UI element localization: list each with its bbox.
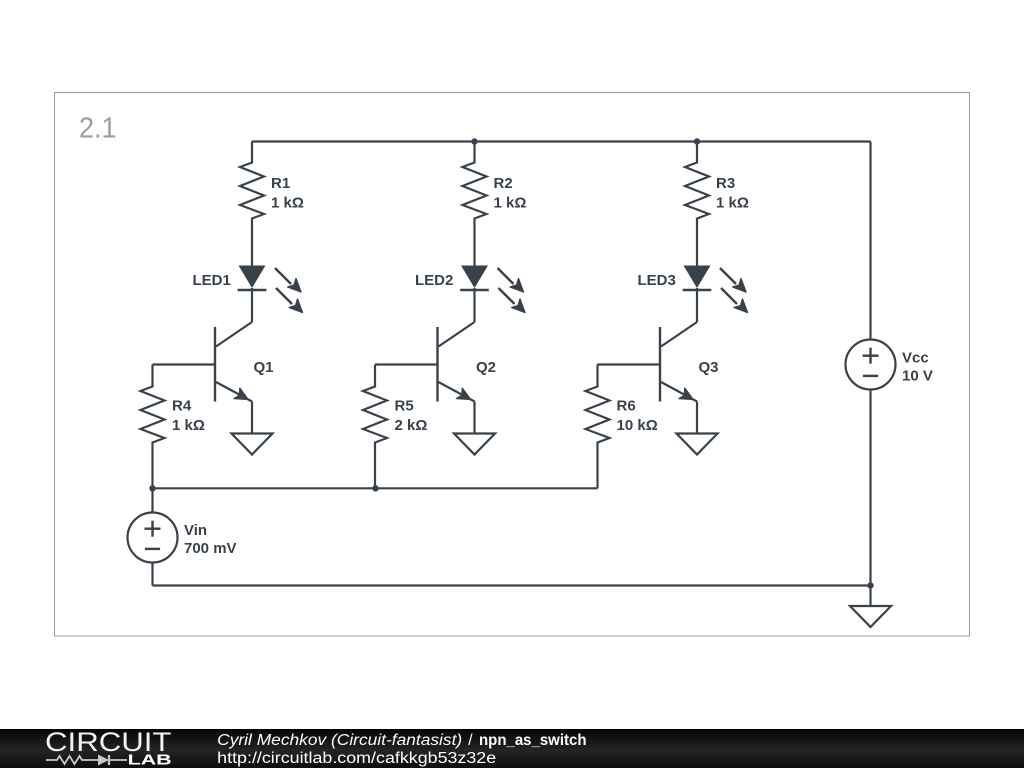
- svg-text:Vcc: Vcc: [902, 350, 929, 367]
- svg-text:Vin: Vin: [184, 522, 207, 539]
- svg-text:LAB: LAB: [128, 752, 172, 768]
- svg-text:10 kΩ: 10 kΩ: [617, 417, 658, 434]
- svg-text:R1: R1: [271, 175, 290, 192]
- svg-text:Q1: Q1: [254, 359, 274, 376]
- svg-text:/: /: [468, 732, 473, 749]
- svg-text:LED2: LED2: [415, 272, 453, 289]
- svg-text:2 kΩ: 2 kΩ: [395, 417, 428, 434]
- svg-text:Q3: Q3: [699, 359, 719, 376]
- svg-text:R3: R3: [716, 175, 735, 192]
- svg-text:R4: R4: [172, 398, 192, 415]
- svg-text:Q2: Q2: [476, 359, 496, 376]
- svg-text:npn_as_switch: npn_as_switch: [479, 732, 587, 749]
- svg-text:R6: R6: [617, 398, 636, 415]
- svg-text:1 kΩ: 1 kΩ: [494, 195, 527, 212]
- svg-text:1 kΩ: 1 kΩ: [716, 195, 749, 212]
- svg-text:10 V: 10 V: [902, 368, 933, 385]
- svg-text:LED3: LED3: [638, 272, 676, 289]
- svg-text:Cyril Mechkov (Circuit-fantasi: Cyril Mechkov (Circuit-fantasist): [217, 732, 462, 749]
- svg-text:2.1: 2.1: [79, 113, 117, 145]
- svg-text:1 kΩ: 1 kΩ: [271, 195, 304, 212]
- svg-text:700 mV: 700 mV: [184, 540, 237, 557]
- svg-text:http://circuitlab.com/cafkkgb5: http://circuitlab.com/cafkkgb53z32e: [217, 750, 496, 767]
- svg-text:R5: R5: [395, 398, 414, 415]
- svg-text:1 kΩ: 1 kΩ: [172, 417, 205, 434]
- svg-text:R2: R2: [494, 175, 513, 192]
- svg-text:LED1: LED1: [193, 272, 231, 289]
